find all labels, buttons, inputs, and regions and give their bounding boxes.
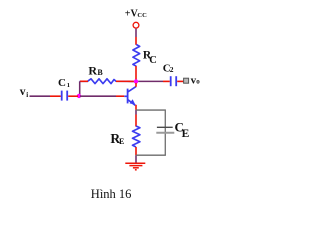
capacitor C1 (61, 91, 63, 101)
wire C1 to base node (68, 95, 78, 97)
node collector junction (134, 79, 138, 83)
svg-text:E: E (119, 137, 124, 146)
wire CE branch bottom (136, 154, 166, 156)
wire emitter lead down (135, 105, 137, 110)
wire RC to collector node (135, 66, 137, 80)
svg-text:o: o (196, 78, 200, 86)
transistor Q1 (127, 89, 129, 104)
node VCC terminal (133, 22, 139, 28)
svg-text:CC: CC (137, 12, 147, 19)
node base junction (77, 94, 81, 98)
wire CE branch right vertical (164, 110, 166, 155)
svg-text:E: E (182, 128, 190, 140)
resistor RC (133, 45, 140, 67)
wire vi to C1 (30, 95, 51, 97)
wire RE to ground (135, 147, 137, 155)
ground (125, 162, 145, 164)
wire collector node to C2 (138, 80, 163, 82)
capacitor CE (157, 126, 173, 128)
svg-text:2: 2 (170, 65, 174, 74)
wire CE branch top (136, 109, 166, 111)
svg-text:i: i (26, 91, 28, 99)
wire C2 to output terminal (177, 80, 183, 82)
svg-text:C: C (58, 77, 66, 89)
svg-text:B: B (97, 68, 103, 77)
node output terminal square (184, 78, 189, 83)
svg-text:1: 1 (67, 82, 70, 89)
capacitor C2 (170, 76, 172, 86)
wire RB corner down to base node (79, 81, 81, 96)
resistor RB (80, 79, 134, 84)
svg-text:Hình 16: Hình 16 (91, 187, 132, 201)
svg-text:C: C (149, 55, 157, 66)
wire base node to transistor base (80, 95, 116, 97)
wire VCC terminal to RC (135, 29, 137, 37)
wire collector lead up to node (135, 83, 137, 87)
svg-text:v: v (20, 86, 26, 98)
svg-text:R: R (88, 63, 97, 77)
resistor RE (133, 126, 140, 147)
